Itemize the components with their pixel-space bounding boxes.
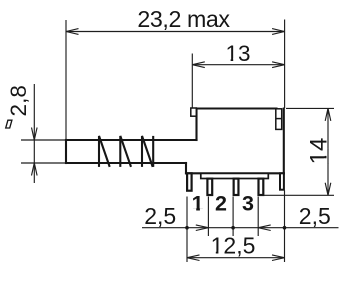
body top edge (197, 107, 277, 109)
pin 2 (234, 179, 239, 195)
pin extension line: pin 2 (232, 197, 234, 237)
thread mark 1 (99, 136, 110, 167)
dimension 2,5 left/right chain line (142, 225, 339, 231)
dimension 12,5 : dimension line (187, 255, 285, 261)
svg-text:2,5: 2,5 (299, 203, 331, 229)
svg-text:12,5: 12,5 (211, 232, 256, 258)
dimension 2,8 : extension lines (21, 140, 65, 163)
svg-text:23,2 max: 23,2 max (137, 6, 230, 32)
svg-text:1: 1 (192, 192, 204, 216)
shaft bottom edge (66, 162, 186, 164)
body bottom edge (186, 172, 284, 174)
dimension 14 : extension line top (286, 107, 334, 109)
svg-text:3: 3 (242, 192, 254, 216)
body lower-left edge (185, 163, 187, 173)
thread mark 2 (120, 136, 131, 167)
left cover tab (191, 108, 197, 116)
dimension 23,2 max : extension line left (65, 20, 67, 139)
dimension 13 : extension line left (191, 54, 193, 108)
dimension 14 : extension line bottom (258, 194, 334, 196)
body upper-left edge (195, 109, 197, 141)
redraw 14 dimension line over patch (327, 149, 329, 164)
dimension 23,2 max : dimension line (66, 29, 285, 35)
pin extension line: outer right (284, 191, 286, 263)
body right edge (283, 109, 285, 174)
glyph style patches: remove foot serif of digit 1 (Arial-style) (192, 58, 327, 253)
svg-text:2,8: 2,8 (6, 85, 31, 116)
right cover tab (276, 109, 282, 130)
pin extension line: pin 3 (257, 197, 259, 237)
svg-text:2: 2 (215, 192, 227, 216)
thread end line (152, 136, 154, 167)
pin extension line: outer left (186, 197, 188, 263)
dimension 2,8 : dimension line with outside arrows (32, 84, 38, 183)
svg-text:2,5: 2,5 (144, 203, 176, 229)
dimension 2,8 : square symbol (6, 120, 12, 128)
chain dot left (185, 226, 189, 230)
shaft top edge (66, 139, 197, 141)
pin extension line: pin 1 (207, 197, 209, 237)
thread mark 3 (142, 136, 153, 167)
pin 1 (207, 179, 212, 195)
shaft outline (threaded bushing), left edge (66, 109, 284, 174)
dimension 13 : dimension line (192, 62, 284, 68)
chain dot middle (231, 226, 235, 230)
chain dot right (283, 226, 287, 230)
outer right pin (280, 173, 284, 189)
base strip (201, 173, 268, 178)
svg-text:13: 13 (225, 41, 250, 66)
dimension 23,2 max : extension line right (284, 20, 286, 109)
outer left pin (187, 173, 192, 190)
dimension 14 : dimension line (325, 108, 331, 195)
pin 3 (259, 179, 264, 195)
